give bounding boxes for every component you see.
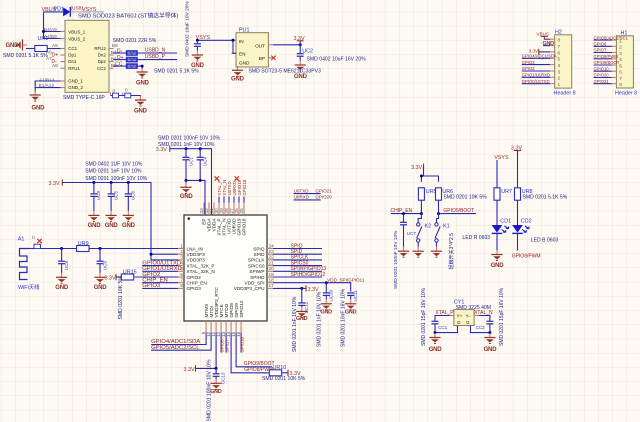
svg-text:RFU2: RFU2 (94, 46, 106, 51)
svg-text:UR9: UR9 (78, 241, 89, 247)
wire XTAL_N to CC2 (479, 316, 490, 322)
no-connect X XTAL_P column (215, 176, 219, 180)
svg-text:GND: GND (484, 347, 498, 353)
antenna A1 WiFi (20, 249, 30, 280)
svg-text:UR7: UR7 (501, 189, 512, 195)
ground UC3 (88, 211, 99, 222)
svg-text:CC2: CC2 (476, 325, 485, 330)
svg-text:0: 0 (113, 88, 116, 93)
capacitor UC6 (125, 183, 132, 211)
svg-text:1: 1 (558, 82, 561, 87)
wire UR5 to CHIP_EN net (391, 200, 421, 213)
svg-text:Dp2: Dp2 (98, 59, 107, 64)
wire K2 to ground (417, 242, 419, 247)
wire 3.3V to pullups (421, 167, 438, 182)
svg-text:23: 23 (269, 249, 275, 254)
svg-text:SMD 0201 10K 5%: SMD 0201 10K 5% (118, 276, 124, 320)
svg-text:SMD 0201 1nF 16V 10%: SMD 0201 1nF 16V 10% (292, 296, 298, 352)
wire CC2 to UR4 (114, 65, 127, 67)
wire GND_1 GND_2 (35, 81, 60, 92)
svg-text:LED R 0603: LED R 0603 (462, 235, 490, 241)
capacitor UC8 (58, 249, 65, 273)
wire UR7 to CD1 (496, 200, 498, 225)
capacitor CC1 (432, 321, 439, 334)
capacitor UC13 (213, 368, 220, 381)
svg-text:A8: A8 (52, 63, 58, 68)
junction rail UC5 (110, 181, 113, 184)
svg-text:OUT: OUT (255, 43, 265, 48)
svg-text:16: 16 (236, 331, 241, 337)
svg-text:GPIO20: GPIO20 (315, 195, 332, 200)
svg-text:SPICLK: SPICLK (248, 258, 266, 263)
svg-text:D-: D- (117, 49, 123, 55)
wire U0TXD to GPIO21 (294, 193, 321, 195)
svg-text:SMD 0201 1nF 10V 10%: SMD 0201 1nF 10V 10% (85, 169, 142, 175)
junction rail UC3 (92, 181, 95, 184)
svg-text:Dn1: Dn1 (68, 59, 77, 64)
wire UR5 to K2 (418, 214, 421, 223)
wire CD1 to ground (496, 233, 498, 250)
svg-text:A1/B12: A1/B12 (39, 78, 55, 83)
wire UR6 to K1 (437, 214, 439, 223)
power bracket 3.3V UR10 (288, 370, 301, 378)
ground CD1 (491, 250, 502, 261)
svg-text:SPID: SPID (254, 252, 266, 257)
svg-text:GND: GND (88, 223, 102, 229)
svg-text:SMD 0201 10K 5%: SMD 0201 10K 5% (262, 376, 306, 382)
junction VBUS (42, 30, 45, 33)
svg-text:UC5: UC5 (113, 191, 118, 200)
svg-text:GPIO10: GPIO10 (239, 300, 244, 317)
svg-text:CC2: CC2 (97, 66, 106, 71)
ground UC2 (295, 61, 306, 72)
wire net stub XTAL_N (223, 197, 225, 203)
svg-text:GPIO9/BOOT: GPIO9/BOOT (443, 208, 474, 214)
wire GPIO7 H1 (594, 52, 612, 54)
resistor RU2 22R blue box (126, 51, 137, 56)
svg-text:U0RXD: U0RXD (294, 195, 310, 200)
resistor RU3 22R blue box (126, 57, 137, 62)
wire GPIO4 H2 (522, 57, 550, 59)
svg-text:SMD 0201 5.1K 5%: SMD 0201 5.1K 5% (523, 195, 568, 201)
svg-text:5: 5 (619, 63, 622, 68)
svg-text:SMD 0201 1nF 10V 10%: SMD 0201 1nF 10V 10% (158, 142, 215, 148)
svg-text:RFU1: RFU1 (68, 66, 80, 71)
ground symbol sideways at UR1 (17, 39, 28, 50)
svg-text:GPIO9/BOOT: GPIO9/BOOT (244, 361, 275, 367)
svg-text:SMD SOD023 BAT60J (ST镇达半导体): SMD SOD023 BAT60J (ST镇达半导体) (78, 12, 178, 20)
svg-text:GND: GND (180, 194, 194, 200)
ground UC9 (94, 273, 105, 284)
svg-text:G: G (466, 320, 470, 325)
no-connect X on BP (271, 56, 275, 60)
svg-text:GND: GND (345, 310, 357, 316)
svg-text:UC13: UC13 (220, 372, 225, 384)
svg-text:6: 6 (558, 50, 561, 55)
junction rail UC4 (199, 147, 202, 150)
capacitor UC9 (97, 249, 104, 273)
svg-text:GND: GND (294, 74, 308, 80)
capacitor UC3 (90, 183, 97, 211)
svg-text:6: 6 (180, 272, 183, 277)
junction K2 (420, 212, 423, 215)
power flag 3.3V led (511, 145, 522, 153)
svg-text:UC9: UC9 (102, 261, 107, 270)
svg-text:XTAL_32K_P: XTAL_32K_P (187, 263, 215, 268)
svg-text:LED B 0603: LED B 0603 (531, 237, 559, 243)
wire GND to H2 pin7 (543, 45, 550, 47)
wire GPIO20 H1 (594, 77, 612, 79)
capacitor UC10 (323, 283, 330, 300)
ground UC5 (106, 211, 117, 222)
svg-text:GPIO3: GPIO3 (187, 286, 202, 291)
LED CD1 red (492, 225, 509, 233)
jumper 0 ohm 1 (113, 93, 119, 98)
wire GPIO9 H1 (594, 64, 612, 66)
svg-text:G: G (457, 320, 461, 325)
jumper 0 antenna DNP (34, 244, 41, 248)
svg-text:D+: D+ (52, 53, 59, 59)
wire VDD3P3_RTC to 3.3V (196, 333, 217, 369)
svg-text:17: 17 (269, 283, 275, 288)
svg-text:B5: B5 (111, 63, 117, 68)
svg-text:B7: B7 (111, 50, 117, 55)
svg-text:3: 3 (619, 51, 622, 56)
svg-text:3: 3 (180, 255, 183, 260)
wire 3.3V to H2 pin6 (539, 51, 550, 53)
capacitor UC12 (298, 288, 305, 307)
resistor UR10 (269, 370, 281, 376)
wire GPIO3 row (142, 287, 178, 289)
wire 3.3V to UR15 (116, 276, 121, 278)
resistor UR5 (418, 188, 424, 200)
svg-text:UR10: UR10 (273, 365, 287, 371)
svg-text:CHIP_EN: CHIP_EN (187, 281, 207, 286)
wire RU2 to USBD_N (137, 52, 177, 54)
svg-text:H2: H2 (555, 30, 562, 36)
junction UC10 (325, 281, 328, 284)
svg-text:SMD SOT23-5 ME6211C33PV3: SMD SOT23-5 ME6211C33PV3 (249, 69, 322, 75)
wire GPIO5 row bottom (151, 333, 211, 351)
resistor UR7 (494, 188, 500, 200)
wire GPIO0 H2 (522, 83, 550, 85)
svg-text:Y+: Y+ (457, 314, 463, 319)
power flag 3.3V out (294, 36, 305, 45)
resistor UR8 (515, 188, 521, 200)
svg-text:A5: A5 (52, 43, 58, 48)
svg-text:SMD 0201 10nF 16V 10%: SMD 0201 10nF 16V 10% (341, 288, 347, 347)
wire SPIQ row right (273, 248, 322, 250)
svg-text:VBUS_2: VBUS_2 (68, 37, 85, 42)
svg-text:SPIWP: SPIWP (249, 269, 264, 274)
junction UC9 (99, 247, 102, 250)
no-connect X antenna jumper (37, 239, 41, 243)
wire crystal G right loop (471, 326, 490, 333)
power bracket 3.3V buttons (411, 164, 424, 172)
svg-text:GPIO18: GPIO18 (242, 218, 247, 235)
svg-text:A1: A1 (18, 237, 25, 243)
wire SPIHD row right (273, 276, 322, 278)
wire VBUS to H2 pin8 (544, 38, 550, 40)
svg-text:VDD3P3_CPU: VDD3P3_CPU (234, 286, 265, 291)
wire net stub XTAL_P (218, 197, 220, 203)
svg-text:8: 8 (558, 38, 561, 43)
resistor UR15 pullup (121, 274, 133, 280)
crystal CY1 (449, 310, 478, 326)
LED CD2 blue (512, 225, 529, 233)
svg-text:GND: GND (32, 106, 46, 112)
svg-text:SMD 0201 15pF 16V 10%: SMD 0201 15pF 16V 10% (421, 287, 427, 346)
wire GPIO2 H2 (522, 70, 550, 72)
capacitor UC11 (347, 293, 354, 300)
wire net stub GPIO18 (243, 197, 245, 203)
svg-text:VBUS_1: VBUS_1 (68, 29, 85, 34)
wire antenna feed (29, 248, 178, 250)
wire GPIO9 BOOT (236, 333, 272, 367)
svg-text:轻触开关3*4*2.5: 轻触开关3*4*2.5 (448, 233, 455, 270)
svg-text:GND: GND (105, 223, 119, 229)
svg-text:GND: GND (134, 109, 148, 115)
wire K1 to ground (436, 242, 438, 247)
ground UC6 (123, 211, 134, 222)
svg-text:SMD 0201 5.1K 5%: SMD 0201 5.1K 5% (3, 53, 48, 59)
connector USB1 SMD TYPE-C 16P (61, 20, 123, 95)
wire SPID row right (273, 253, 322, 255)
ground shell (135, 96, 146, 107)
wire shell jumpers (111, 96, 141, 98)
capacitor UC5 (108, 183, 115, 211)
svg-text:GND: GND (429, 347, 443, 353)
wire VBUS top (44, 11, 64, 13)
wire GPIO8 H1 (594, 58, 612, 60)
svg-text:GND_2: GND_2 (68, 85, 83, 90)
svg-text:U0TXD: U0TXD (294, 188, 310, 193)
ground PU1 (232, 66, 243, 77)
ground K2 (413, 247, 424, 258)
power bracket 3.3V antenna rail (49, 179, 63, 187)
wire Dp2 to RU3 (114, 59, 127, 61)
diode PD1 BAT60J (63, 7, 70, 17)
svg-text:7: 7 (619, 76, 622, 81)
svg-text:USBD_N: USBD_N (145, 48, 166, 54)
svg-text:PU1: PU1 (239, 28, 250, 34)
svg-text:0: 0 (32, 235, 35, 240)
pushbutton K1 (435, 223, 440, 242)
svg-text:GND: GND (231, 76, 245, 82)
svg-text:4: 4 (558, 63, 561, 68)
svg-text:UC10: UC10 (329, 289, 334, 301)
svg-text:LNA_IN: LNA_IN (187, 246, 203, 251)
svg-text:UC8: UC8 (64, 261, 69, 270)
wire UR4 to ground (137, 66, 142, 69)
svg-text:6: 6 (619, 70, 622, 75)
junction UC7 tap (402, 212, 405, 215)
svg-text:GPIO5/ADC2/SCL: GPIO5/ADC2/SCL (151, 345, 200, 351)
jumper 0 ohm 2 (125, 93, 131, 98)
svg-text:UC2: UC2 (302, 48, 313, 54)
svg-text:SMD 0402 10uF 16V 20%: SMD 0402 10uF 16V 20% (307, 56, 367, 62)
junction CC1 gnd (434, 331, 437, 334)
svg-text:IN: IN (239, 39, 244, 44)
svg-text:4: 4 (619, 57, 622, 62)
svg-text:GND: GND (191, 63, 205, 69)
power bracket 3.3V UR15 (105, 274, 117, 282)
ground input cap (192, 51, 203, 62)
resistor UR1 5.1K (35, 46, 47, 52)
svg-text:SMD 0201 1nF 10V 10%: SMD 0201 1nF 10V 10% (316, 291, 322, 347)
wire SPICS0 row right (273, 265, 322, 267)
svg-text:GND: GND (210, 389, 222, 395)
wire 3.3V to UR8 (517, 151, 519, 188)
wire diode cathode to VSYS (70, 11, 103, 13)
svg-text:SMD 0201 15pF 16V 10%: SMD 0201 15pF 16V 10% (499, 287, 505, 346)
svg-text:3: 3 (558, 69, 561, 74)
svg-text:XTAL_32K_N: XTAL_32K_N (187, 269, 215, 274)
svg-text:2: 2 (558, 76, 561, 81)
svg-text:VDD3P3: VDD3P3 (187, 252, 206, 257)
ground CC2 (484, 333, 495, 344)
wire GPIO4 row bottom (151, 333, 206, 345)
svg-text:GND: GND (55, 285, 69, 291)
svg-text:2: 2 (619, 45, 622, 50)
svg-text:GPIO18: GPIO18 (242, 179, 247, 195)
ground UC7 (398, 247, 409, 258)
svg-text:UC7: UC7 (407, 231, 416, 236)
wire RU3 to USBD_P (137, 59, 177, 61)
wire MTDO GPIO7 (225, 333, 227, 353)
svg-text:CD2: CD2 (521, 218, 532, 224)
capacitor UC1 (183, 149, 190, 181)
svg-text:GND: GND (296, 316, 308, 322)
svg-text:UC1: UC1 (188, 157, 193, 166)
wire GPIO1 H2 (522, 76, 550, 78)
svg-text:24: 24 (269, 243, 275, 248)
svg-text:3.3V: 3.3V (105, 275, 116, 281)
resistor UR4 5.1K blue box (126, 64, 137, 69)
wire net stub GPIO19 (238, 197, 240, 203)
svg-text:GND: GND (94, 285, 108, 291)
svg-text:SMD 0201 5.1K 5%: SMD 0201 5.1K 5% (154, 69, 199, 75)
wire 3.3V rail to VDD3P3 pins (62, 183, 178, 260)
svg-text:7: 7 (180, 278, 183, 283)
svg-text:UR1: UR1 (38, 36, 49, 42)
svg-text:GND: GND (491, 263, 505, 269)
junction K1 (437, 212, 440, 215)
wire 3.3V rail to VDDA (170, 149, 212, 215)
wire OUT to 3.3V (273, 44, 300, 46)
ground top decoupling (180, 180, 191, 193)
ground CC pulldown (137, 68, 148, 79)
wire SPIWP row right (273, 270, 322, 272)
svg-text:SMD 0402 10uF 10V 20%: SMD 0402 10uF 10V 20% (185, 1, 191, 57)
junction CC pulldown (141, 65, 144, 68)
svg-text:GPIO2: GPIO2 (187, 275, 202, 280)
IC U5 ESP32 module (178, 203, 273, 333)
svg-text:18: 18 (269, 278, 275, 283)
svg-text:K2: K2 (425, 223, 432, 229)
svg-text:5: 5 (558, 57, 561, 62)
wire GPIO6 H1 (594, 45, 612, 47)
wire GPIO0 row (142, 265, 178, 267)
wire GPIO10 (240, 333, 242, 353)
junction bus UC4 (199, 179, 202, 182)
svg-text:GPIO21: GPIO21 (315, 188, 332, 193)
svg-text:SMD 0201 100nF 10V 10%: SMD 0201 100nF 10V 10% (85, 176, 147, 182)
svg-text:GPIO7: GPIO7 (224, 339, 229, 353)
wire VBUS vertical to VBUS pins (44, 12, 61, 39)
header H1 (612, 36, 634, 88)
wire GPIO1 row (142, 270, 178, 272)
svg-text:VDD_SPI: VDD_SPI (244, 281, 264, 286)
power bracket 3.3V top rail (156, 146, 170, 154)
capacitor input 10uF (194, 40, 201, 50)
svg-text:CC1: CC1 (68, 46, 77, 51)
capacitor CC2 (486, 321, 493, 334)
wire VDD3P3_CPU row (273, 287, 306, 289)
wire GPIO2 row (134, 276, 178, 278)
junction EN tie (232, 39, 235, 42)
junction UC13 (215, 367, 218, 370)
svg-text:CC1: CC1 (438, 325, 447, 330)
junction CC2 gnd (488, 331, 491, 334)
svg-text:BP: BP (259, 56, 265, 61)
svg-text:7: 7 (558, 44, 561, 49)
wire EN tie to IN (233, 40, 236, 53)
svg-text:UC11: UC11 (353, 290, 358, 302)
svg-text:UC3: UC3 (96, 191, 101, 200)
wire Dn2 to RU2 (114, 52, 127, 54)
svg-text:CD1: CD1 (500, 218, 511, 224)
wire VSYS to UR7 (496, 160, 498, 188)
svg-text:UC4: UC4 (203, 157, 208, 166)
svg-text:EN: EN (239, 52, 246, 57)
svg-text:2: 2 (180, 249, 183, 254)
ground CC1 (429, 333, 440, 344)
svg-text:UR15: UR15 (123, 269, 137, 275)
svg-text:3.3V: 3.3V (49, 181, 60, 187)
svg-text:PD1: PD1 (54, 7, 65, 13)
wire VSYS to PU1 IN (197, 39, 236, 41)
wire GPIO3 H2 (522, 64, 550, 66)
wire GPIO21 H1 (594, 83, 612, 85)
junction VDD3P3 (150, 253, 153, 256)
svg-text:3.3V: 3.3V (184, 367, 195, 373)
svg-text:GPIO8/PWM: GPIO8/PWM (512, 253, 541, 259)
svg-text:WiFi天线: WiFi天线 (18, 283, 40, 291)
regulator PU1 ME6211 (232, 33, 273, 71)
svg-text:SMD 0201 22R 5%: SMD 0201 22R 5% (113, 38, 157, 44)
wire CD2 to GPIO8 (517, 233, 519, 250)
svg-text:SPIHD: SPIHD (250, 275, 265, 280)
power bracket 3.3V UC13 (184, 365, 196, 373)
wire VDD_SPI row (273, 283, 351, 292)
inductor UR9 (77, 246, 89, 252)
wire MTCK GPIO6 (220, 333, 222, 353)
ground GND_1/2 (30, 91, 41, 102)
svg-text:Dn2: Dn2 (98, 53, 107, 58)
svg-text:VDD_SPI/GPIO11: VDD_SPI/GPIO11 (327, 277, 365, 282)
svg-text:UC6: UC6 (131, 191, 136, 200)
resistor UR6 (436, 188, 442, 200)
junction rail UC6 (127, 181, 130, 184)
svg-text:Y-: Y- (466, 314, 471, 319)
capacitor UC7 (400, 214, 407, 247)
wire UR8 to CD2 (517, 200, 519, 225)
svg-text:3.3V: 3.3V (411, 165, 422, 171)
svg-text:SMD 0402 1UF 10V 10%: SMD 0402 1UF 10V 10% (85, 161, 143, 167)
svg-text:GPIO10: GPIO10 (239, 336, 244, 352)
svg-text:GND: GND (136, 81, 150, 87)
